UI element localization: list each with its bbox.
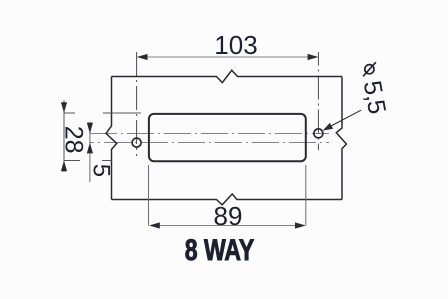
svg-text:5,5: 5,5 bbox=[358, 79, 391, 116]
svg-text:28: 28 bbox=[59, 126, 87, 154]
svg-text:5: 5 bbox=[87, 164, 114, 177]
svg-text:89: 89 bbox=[214, 201, 243, 231]
svg-text:103: 103 bbox=[214, 30, 257, 60]
svg-text:8 WAY: 8 WAY bbox=[185, 233, 255, 266]
